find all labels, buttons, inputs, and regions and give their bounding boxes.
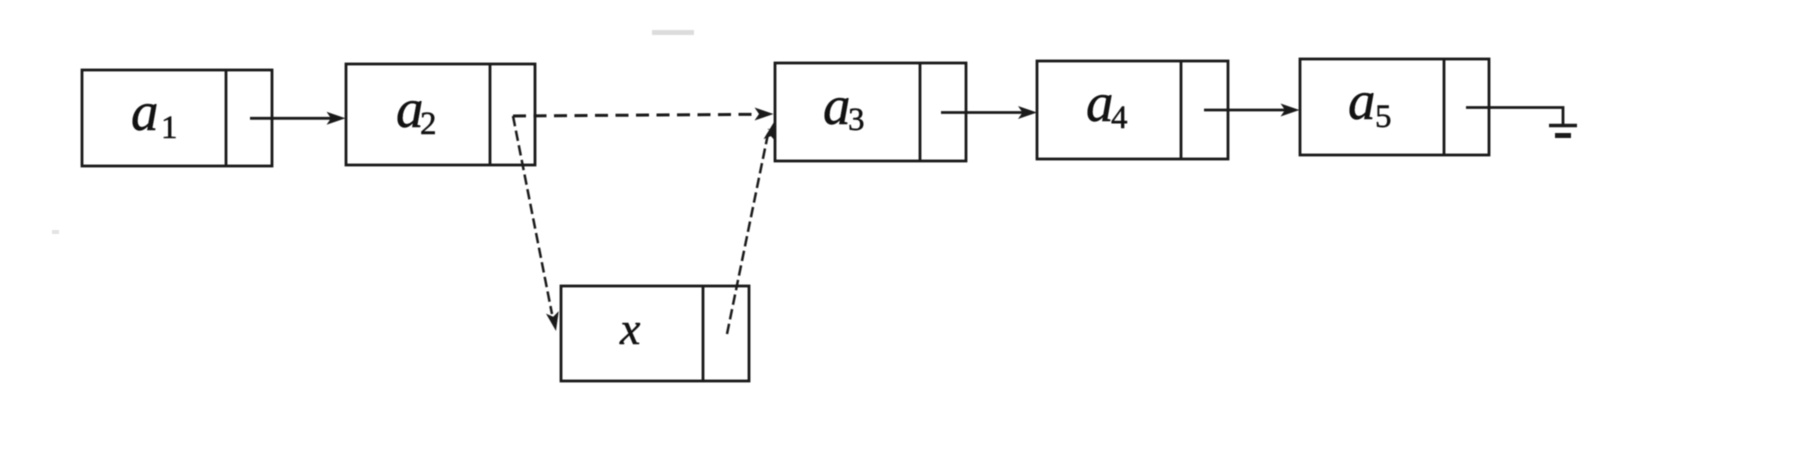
node a5 label — [1348, 70, 1392, 135]
node a1 box — [82, 70, 272, 166]
node a2 box — [346, 64, 535, 165]
wire arrow a1 to a2 — [250, 112, 346, 125]
dashed wire x up to a3 — [727, 121, 780, 334]
svg-text:5: 5 — [1375, 99, 1392, 135]
node a5 box — [1300, 59, 1489, 155]
node a4 label — [1086, 72, 1128, 136]
dashed wire a2 down to node x — [513, 116, 562, 332]
node a2 label — [396, 78, 437, 142]
ground symbol — [1549, 126, 1577, 136]
svg-text:3: 3 — [848, 102, 865, 138]
svg-text:x: x — [619, 303, 641, 354]
node a3 label — [823, 75, 865, 138]
node x box — [561, 286, 749, 381]
svg-text:1: 1 — [161, 110, 178, 146]
svg-text:a: a — [823, 75, 851, 136]
scan smudge top center — [652, 30, 694, 35]
dashed wire old pointer a2 to a3 — [513, 108, 774, 121]
svg-text:2: 2 — [420, 106, 437, 142]
wire a5 null pointer — [1466, 108, 1563, 126]
node a3 box — [775, 63, 966, 161]
scan dot left — [52, 230, 59, 234]
svg-text:a: a — [1086, 72, 1114, 133]
svg-text:a: a — [1348, 70, 1376, 131]
wire arrow a4 to a5 — [1204, 104, 1300, 117]
svg-text:4: 4 — [1111, 100, 1128, 136]
node a1 label — [131, 81, 178, 146]
wire arrow a3 to a4 — [941, 106, 1037, 119]
node a4 box — [1037, 61, 1228, 159]
svg-text:a: a — [131, 81, 159, 142]
